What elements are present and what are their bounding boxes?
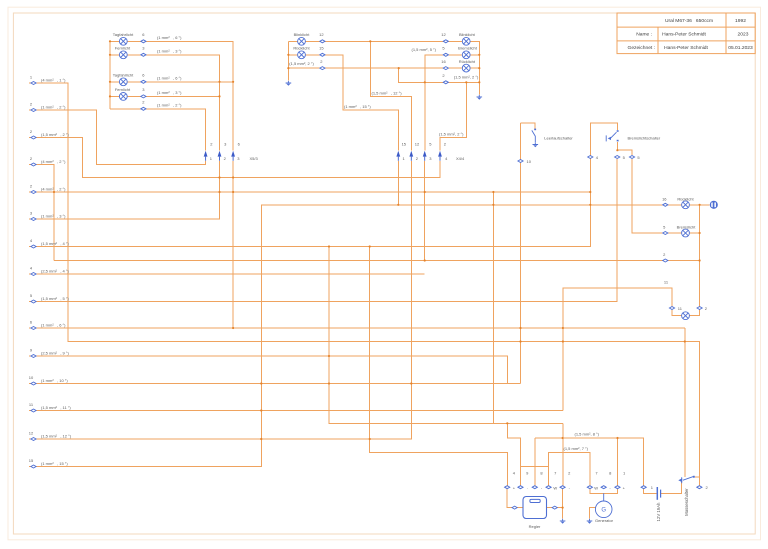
wire net 6: drop to main switch: [684, 328, 686, 477]
terminal diamond 4: [31, 245, 36, 248]
lamp: [462, 64, 470, 72]
node 5 brake lamp: [663, 225, 668, 235]
svg-text:(2,5 mm² , 9 °): (2,5 mm² , 9 °): [41, 350, 69, 355]
regulator pin 9: [518, 486, 523, 489]
junction: [369, 438, 371, 440]
wire net 5: brake switch output branch: [617, 142, 632, 155]
node on Ruecklicht right wire: [443, 67, 448, 70]
junction: [410, 382, 412, 384]
junction: [232, 176, 234, 178]
pin 2 of X5/3: [218, 151, 222, 161]
node 2 terminal at y=164.5: [30, 156, 66, 166]
svg-text:Blinklicht: Blinklicht: [294, 32, 311, 37]
wire net 6: X5/3 pin 3 drop: [232, 161, 234, 328]
pin 1 of X4/4: [396, 151, 400, 161]
wire: regulator pin 8 feed: [534, 438, 536, 487]
svg-text:2023: 2023: [738, 31, 749, 37]
lamp Ruecklicht rear: [677, 196, 694, 208]
terminal diamond 11: [31, 409, 36, 412]
junction: [287, 54, 289, 56]
node 10 idle switch: [518, 160, 523, 163]
wire net 2: terminal 2 (4mm) feed row: [29, 191, 590, 193]
terminal diamond 12: [31, 438, 36, 441]
svg-text:(4 mm² , 2 °): (4 mm² , 2 °): [41, 186, 66, 191]
regulator pin 2: [560, 486, 565, 489]
node 1 battery: [641, 486, 646, 489]
wire: centre vertical link: [492, 192, 494, 423]
node: [663, 232, 668, 235]
regulator Regler: [505, 471, 572, 529]
node 2 terminal at y=110: [30, 101, 66, 111]
wire net 2: jog to right lamp group: [399, 68, 480, 82]
terminal diamond 5: [31, 300, 36, 303]
junction: [369, 245, 371, 247]
lamp: [119, 93, 127, 101]
lamp Ruecklicht left: [293, 45, 324, 58]
wire: regulator pin 9 feed: [507, 423, 520, 487]
junction: [492, 204, 494, 206]
pin 3 of X5/3: [231, 151, 235, 161]
battery 12V: [641, 485, 661, 521]
junction: [369, 40, 371, 42]
junction: [506, 422, 508, 424]
svg-text:Tagfahrlicht: Tagfahrlicht: [113, 32, 134, 37]
lamp: [462, 37, 470, 45]
terminal diamond 2: [31, 163, 36, 166]
junction: [562, 340, 564, 342]
terminal diamond 3: [31, 218, 36, 221]
wire net 5: Bremslicht row to X4/4 pin 3: [425, 55, 480, 151]
regulator pin 7: [546, 486, 551, 489]
node on Blinklicht right wire: [443, 40, 448, 43]
junction: [562, 507, 564, 509]
junction: [589, 204, 591, 206]
node headlamp wire 2: [141, 100, 146, 111]
node regulator tap left: [512, 506, 517, 509]
wire: generator entry bus: [590, 487, 618, 493]
node 1 terminal at y=83: [30, 74, 66, 84]
pin 3 of X4/4: [423, 151, 427, 161]
wire: battery positive lead: [644, 487, 657, 493]
svg-text:(1,5 mm², 5 °): (1,5 mm², 5 °): [412, 47, 437, 52]
wire net 4: drop to regulator plus: [370, 247, 508, 488]
svg-text:Rücklicht: Rücklicht: [459, 59, 476, 64]
svg-text:12: 12: [441, 32, 446, 37]
node 3 terminal at y=219: [30, 210, 66, 220]
svg-text:10: 10: [29, 375, 34, 380]
wire: right hand common drop: [699, 205, 701, 308]
svg-text:(1,5 mm², 8 °): (1,5 mm², 8 °): [575, 432, 600, 437]
svg-text:15: 15: [29, 458, 34, 463]
svg-text:(1,5 mm² , 12 °): (1,5 mm² , 12 °): [41, 433, 72, 438]
wire net 2: terminal 2 to X5/3 pin 1: [29, 110, 206, 165]
terminal diamond 4: [31, 273, 36, 276]
lamp: [682, 312, 690, 320]
svg-text:16: 16: [662, 196, 667, 201]
wire net 2: drop to X4/4 pin 4: [440, 82, 466, 150]
junction: [478, 54, 480, 56]
junction: [616, 149, 618, 151]
junction: [424, 191, 426, 193]
node 11 indicator lamp: [669, 306, 682, 311]
svg-text:Name :: Name :: [636, 31, 652, 37]
svg-text:10: 10: [527, 159, 532, 164]
junction: [53, 191, 55, 193]
node 4 terminal at y=274: [30, 265, 70, 275]
lamp Fernlicht 2: [115, 87, 145, 100]
svg-text:12: 12: [415, 142, 420, 147]
ground middle lamp group: [286, 81, 292, 86]
svg-text:W: W: [594, 485, 598, 490]
junction: [562, 437, 564, 439]
lamp Blinklicht left: [294, 32, 325, 45]
wire net 10: terminal 10 row: [29, 383, 507, 385]
svg-text:16: 16: [441, 59, 446, 64]
lamp: [119, 37, 127, 45]
junction: [232, 327, 234, 329]
lamp: [298, 37, 306, 45]
wire net 3: terminal 3 to X5/3 pin 2: [29, 161, 220, 219]
lamp Tagfahrlicht 2: [113, 72, 146, 85]
svg-text:Hans-Peter Schmidt: Hans-Peter Schmidt: [664, 45, 708, 51]
svg-text:(1,5 mm², 2 °): (1,5 mm², 2 °): [439, 131, 464, 136]
wire net 1: terminal 1 to main switch contact 2: [29, 83, 699, 487]
svg-text:05.01.2023: 05.01.2023: [728, 45, 753, 51]
svg-text:(4 mm² , 2 °): (4 mm² , 2 °): [41, 159, 66, 164]
junction: [699, 232, 701, 234]
svg-text:1992: 1992: [735, 18, 746, 24]
wire net 5: terminal 5 to brake switch contact: [29, 159, 617, 302]
svg-text:Masseschalter: Masseschalter: [684, 488, 689, 516]
generator pin 1: [615, 486, 620, 489]
junction: [699, 259, 701, 261]
svg-text:Fernlicht: Fernlicht: [115, 45, 131, 50]
pin 2 of X4/4: [409, 151, 413, 161]
lamp Blinklicht right: [441, 32, 475, 45]
node on Ruecklicht wire 15: [320, 53, 325, 56]
node 4 brake switch: [588, 156, 593, 159]
ground idle switch: [533, 142, 539, 147]
lamp: [682, 229, 690, 237]
regulator pin 4: [505, 486, 510, 489]
svg-text:(1 mm² , 3 °): (1 mm² , 3 °): [41, 213, 66, 218]
wire: regulator pin 2 feed: [562, 423, 564, 487]
svg-text:(1,5 mm², 7 °): (1,5 mm², 7 °): [564, 446, 589, 451]
terminal diamond 1: [31, 82, 36, 85]
junction: [616, 437, 618, 439]
node 10 terminal at y=383.5: [29, 375, 69, 385]
svg-text:Gezeichnet :: Gezeichnet :: [628, 45, 655, 51]
svg-text:Rücklicht: Rücklicht: [677, 196, 694, 201]
svg-text:15: 15: [319, 45, 324, 50]
wire: regulator body tap left: [507, 487, 523, 507]
junction: [328, 382, 330, 384]
svg-text:(1,5 mm² , 11 °): (1,5 mm² , 11 °): [41, 405, 71, 410]
node 5 terminal at y=301.5: [30, 293, 70, 303]
lamp: [119, 78, 127, 86]
junction: [465, 81, 467, 83]
svg-text:(1 mm² , 10 °): (1 mm² , 10 °): [41, 378, 68, 383]
node 2 terminal at y=192: [30, 183, 66, 193]
wire net 2: terminal 2 (4mm) drop: [29, 165, 54, 261]
node on Tagfahrlicht 2 wire: [141, 80, 146, 83]
svg-text:Blinklicht: Blinklicht: [459, 32, 476, 37]
wire net 15: terminal 15 row to tail lamp and socket: [29, 205, 710, 467]
terminal diamond 2: [31, 136, 36, 139]
svg-text:(1 mm² , 6 °): (1 mm² , 6 °): [157, 75, 182, 80]
svg-text:·: ·: [527, 485, 528, 490]
node on Tagfahrlicht 1 wire: [141, 40, 146, 43]
ground regulator: [560, 519, 566, 524]
svg-text:Generator: Generator: [595, 518, 614, 523]
junction: [218, 95, 220, 97]
junction: [218, 81, 220, 83]
svg-text:15: 15: [402, 142, 407, 147]
node 5 brake switch a: [615, 156, 620, 159]
node: [663, 259, 668, 262]
svg-text:Bremslichtschalter: Bremslichtschalter: [628, 135, 661, 140]
junction: [398, 67, 400, 69]
svg-text:Bremslicht: Bremslicht: [458, 45, 478, 50]
ground generator: [587, 519, 593, 524]
node on Fernlicht 1 wire: [141, 53, 146, 56]
svg-text:12V 19Ah: 12V 19Ah: [656, 502, 661, 521]
wire net 7: regulator W to generator W: [549, 453, 590, 488]
junction: [109, 95, 111, 97]
lamp Tagfahrlicht 1: [113, 32, 146, 45]
terminal diamond 10: [31, 382, 36, 385]
wire net 2: terminal 2 (1,5mm) to X4/4 pin 4: [29, 138, 440, 178]
switch Bremslichtschalter: [606, 130, 618, 141]
junction: [397, 204, 399, 206]
node 15 terminal at y=466.5: [29, 458, 69, 468]
wire net 8: generator plus feed: [617, 438, 619, 487]
junction: [684, 340, 686, 342]
wire: regulator minus to ground: [562, 487, 564, 518]
svg-text:G: G: [601, 508, 606, 514]
wire net 2: headlamp group to X5/3 pin 1: [110, 109, 206, 151]
switch Leerlaufschalter: [532, 129, 536, 143]
svg-text:12: 12: [319, 32, 324, 37]
pin 1 of X5/3: [204, 151, 208, 161]
lamp: [682, 201, 690, 209]
svg-text:(1,5 mm², 2 °): (1,5 mm², 2 °): [454, 74, 479, 79]
lamp: [462, 51, 470, 59]
svg-text:(1 mm² , 6 °): (1 mm² , 6 °): [41, 322, 66, 327]
node 11 terminal at y=410.5: [29, 402, 71, 412]
junction: [492, 191, 494, 193]
svg-text:Leerlaufschalter: Leerlaufschalter: [544, 135, 573, 140]
wire net 6: Tagfahrlicht 1 to X5/3 pin 3: [110, 41, 233, 150]
node on Blinklicht wire 12: [320, 40, 325, 43]
node: [663, 203, 668, 206]
svg-text:Bremslicht: Bremslicht: [677, 225, 697, 230]
svg-text:(1 mm² , 15 °): (1 mm² , 15 °): [344, 104, 371, 109]
svg-text:X5/3: X5/3: [250, 156, 259, 161]
wire net 3: Fernlicht 1 to X5/3 pin 2: [110, 55, 220, 151]
lamp Fernlicht 1: [115, 45, 145, 58]
wire net 11: terminal 11 row: [29, 410, 563, 412]
node: [320, 67, 325, 70]
wire net 6: Tagfahrlicht 2 row: [110, 81, 233, 83]
junction: [109, 54, 111, 56]
wire net 6: terminal 6 row: [29, 327, 685, 329]
switch Masseschalter: [678, 476, 708, 516]
lamp Bremslicht rear: [677, 225, 697, 237]
title block text: [628, 18, 753, 51]
node 2 indicator lamp: [697, 306, 708, 311]
junction: [562, 327, 564, 329]
wire: middle lamp group bus: [287, 41, 289, 80]
wire net 2: main plus row: [54, 260, 700, 262]
svg-text:Regler: Regler: [529, 524, 541, 529]
svg-text:Ural M67-36 650ccm: Ural M67-36 650ccm: [665, 18, 713, 24]
wire: generator ground lead: [590, 508, 596, 519]
node on Fernlicht 2 wire: [141, 95, 146, 98]
terminal diamond 2: [31, 191, 36, 194]
svg-text:12: 12: [29, 430, 34, 435]
node 4 terminal at y=246.5: [30, 238, 70, 248]
socket connector rear: [710, 201, 717, 208]
junction: [328, 245, 330, 247]
svg-text:Hans-Peter Schmidt: Hans-Peter Schmidt: [662, 31, 706, 37]
regulator pin 8: [532, 486, 537, 489]
wire net 2: X4/4 pin 3 drop: [424, 161, 426, 261]
junction: [218, 191, 220, 193]
junction: [589, 191, 591, 193]
node: [443, 81, 448, 84]
junction: [519, 327, 521, 329]
junction: [218, 176, 220, 178]
lamp Bremslicht right: [442, 45, 477, 58]
wire net 12: Blinklicht row to right lamp bus: [288, 41, 479, 94]
node wire 2 right group: [442, 73, 448, 84]
wire net 4: terminal 4 to brake light switch: [29, 123, 618, 247]
junction: [478, 67, 480, 69]
junction: [232, 191, 234, 193]
junction: [478, 81, 480, 83]
junction: [260, 409, 262, 411]
junction: [260, 438, 262, 440]
svg-text:Rücklicht: Rücklicht: [293, 45, 310, 50]
wire net 12: drop to X4/4 pin 2: [370, 41, 411, 150]
junction: [699, 204, 701, 206]
wire net 9: terminal 9 row to idle switch riser: [29, 356, 521, 384]
svg-text:(1 mm² , 2 °): (1 mm² , 2 °): [157, 102, 182, 107]
node 5 brake switch b: [629, 156, 634, 159]
wire net 4: drop and row to regulator: [329, 247, 563, 424]
pin 4 of X4/4: [438, 151, 442, 161]
terminal diamond 6: [31, 327, 36, 330]
wire: main switch contact stub: [695, 476, 699, 478]
wire net 12: terminal 12 to X4/4 pin 2: [29, 161, 411, 439]
node regulator tap right: [552, 506, 557, 509]
junction: [109, 81, 111, 83]
wire: battery to main switch: [661, 481, 682, 493]
junction: [232, 81, 234, 83]
node: [697, 307, 702, 310]
svg-text:X4/4: X4/4: [456, 156, 465, 161]
wire net 10: idle switch frame: [521, 123, 536, 130]
connector X5/3: [204, 142, 259, 161]
wire net 8: to battery: [535, 438, 644, 487]
svg-text:(1,5 mm² , 12 °): (1,5 mm² , 12 °): [372, 90, 403, 95]
terminal diamond 9: [31, 355, 36, 358]
wire: headlamp group bus: [109, 41, 111, 109]
terminal diamond 2: [31, 109, 36, 112]
svg-text:(1,5 mm² , 5 °): (1,5 mm² , 5 °): [41, 296, 69, 301]
generator pin 7: [587, 486, 592, 489]
svg-text:(1 mm² , 3 °): (1 mm² , 3 °): [157, 90, 182, 95]
wire net 5: to Bremslicht lamp right: [632, 159, 700, 233]
svg-text:Tagfahrlicht: Tagfahrlicht: [113, 72, 134, 77]
svg-text:(1 mm² , 2 °): (1 mm² , 2 °): [41, 104, 66, 109]
junction: [260, 382, 262, 384]
svg-text:(4 mm² , 1 °): (4 mm² , 1 °): [41, 77, 66, 82]
node 12 terminal at y=439: [29, 430, 72, 440]
node on Bremslicht right wire: [443, 53, 448, 56]
wire net 3: Fernlicht 2 row: [110, 95, 220, 97]
svg-text:Fernlicht: Fernlicht: [115, 87, 131, 92]
junction: [109, 40, 111, 42]
svg-text:(1 mm² , 15 °): (1 mm² , 15 °): [41, 461, 68, 466]
node 2 rear: [663, 252, 668, 262]
svg-text:W: W: [553, 485, 557, 490]
wire net 2: middle lamp row: [288, 67, 479, 69]
node 2 main switch: [697, 486, 702, 489]
svg-text:(1 mm² , 6 °): (1 mm² , 6 °): [157, 35, 182, 40]
ground right lamp group: [477, 95, 483, 100]
node wire 2 middle group: [320, 59, 325, 70]
lamp: [298, 51, 306, 59]
svg-text:(1,5 mm², 2 °): (1,5 mm², 2 °): [289, 61, 314, 66]
node: [141, 107, 146, 110]
wire net 10: idle switch drop: [520, 123, 522, 384]
node 16 tail lamp: [662, 196, 668, 206]
wire net 15: X4/4 pin 1 stub: [397, 161, 399, 205]
wire: regulator link bar: [521, 466, 549, 468]
svg-text:(1 mm² , 3 °): (1 mm² , 3 °): [157, 48, 182, 53]
wire: regulator body tap right: [547, 507, 563, 509]
junction: [519, 340, 521, 342]
wire net 11: riser and lamp 11 loop: [563, 288, 700, 410]
connector X4/4: [396, 142, 465, 161]
svg-text:(2,5 mm² , 4 °): (2,5 mm² , 4 °): [41, 268, 69, 273]
terminal diamond 15: [31, 465, 36, 468]
svg-text:(1,5 mm² , 4 °): (1,5 mm² , 4 °): [41, 241, 69, 246]
svg-text:(1,5 mm² , 2 °): (1,5 mm² , 2 °): [41, 132, 69, 137]
junction: [424, 259, 426, 261]
lamp Ruecklicht right: [441, 59, 476, 72]
junction: [328, 355, 330, 357]
generator G: [587, 471, 626, 524]
lamp: [119, 51, 127, 59]
node 9 terminal at y=356: [30, 347, 70, 357]
junction: [424, 81, 426, 83]
wire net 4: terminal 4 (2,5mm) row: [29, 273, 425, 275]
title block frame: [617, 13, 755, 54]
node 6 terminal at y=328: [30, 319, 66, 329]
node 2 terminal at y=137.5: [30, 129, 70, 139]
junction: [287, 67, 289, 69]
wire net 15: Ruecklicht row to X4/4 pin 1: [288, 55, 398, 151]
node: [669, 307, 674, 310]
generator pin 8: [601, 486, 606, 489]
